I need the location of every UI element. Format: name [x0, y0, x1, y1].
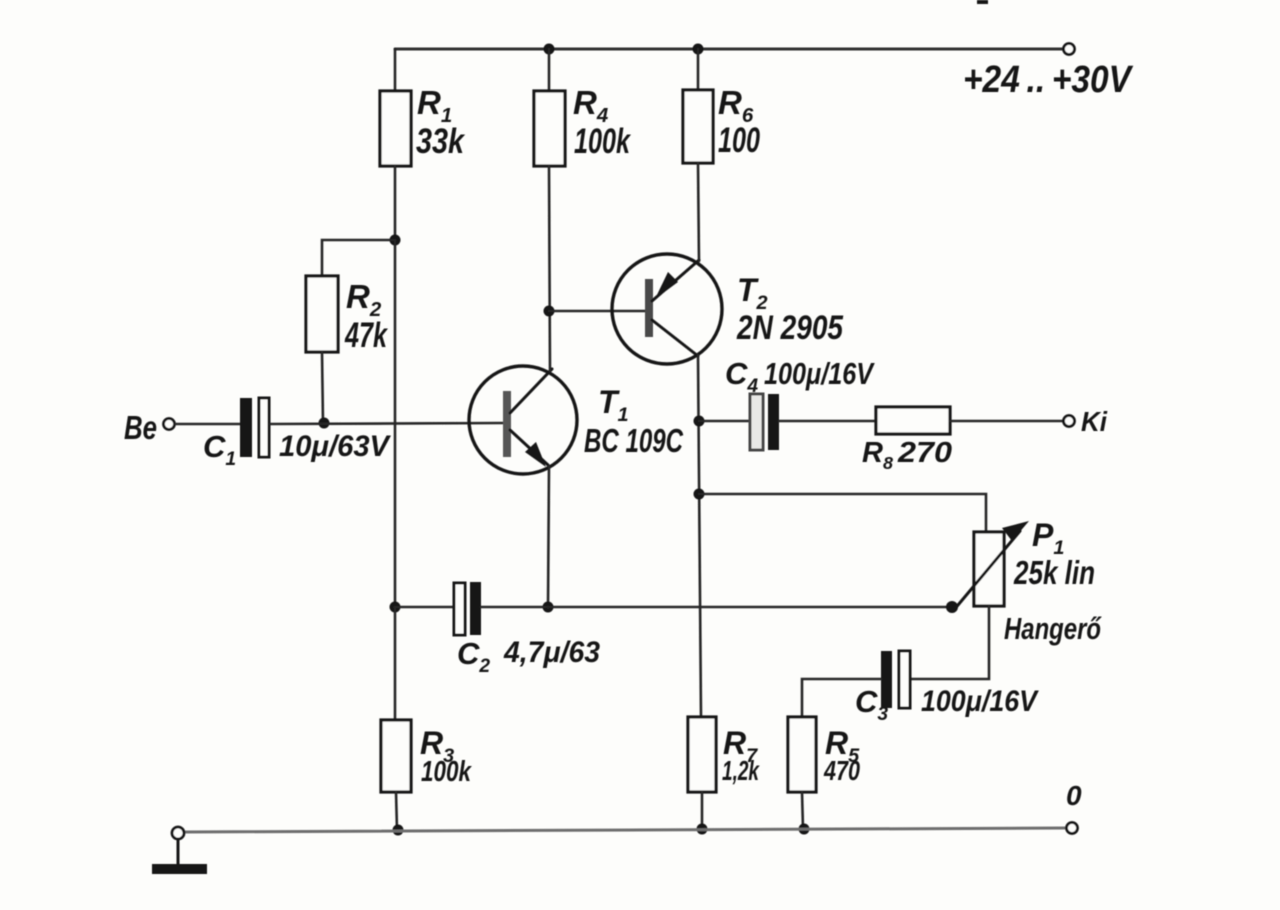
terminal 0	[1067, 823, 1078, 834]
wire rail to R4	[548, 49, 551, 91]
svg-text:0: 0	[1066, 780, 1082, 811]
svg-text:T1: T1	[598, 384, 629, 426]
svg-text:470: 470	[823, 755, 860, 786]
svg-text:R8: R8	[862, 437, 893, 473]
transistor T2	[612, 254, 722, 364]
capacitor C3	[881, 651, 910, 708]
resistor R4	[534, 91, 565, 166]
capacitor C2	[454, 582, 481, 635]
resistor R2	[306, 276, 338, 352]
svg-text:R1: R1	[417, 84, 452, 127]
svg-text:100k: 100k	[421, 756, 472, 788]
wire C4 to R8	[779, 420, 876, 423]
wire to T2 base	[549, 310, 647, 313]
svg-text:+24 .. +30V: +24 .. +30V	[963, 59, 1133, 101]
wire rail to R1	[394, 49, 397, 91]
resistor R3	[381, 720, 411, 792]
wire R7 to rail	[701, 792, 704, 829]
node B (C2/R3 junction)	[390, 602, 401, 613]
svg-text:P1: P1	[1032, 517, 1064, 559]
node C4 junction	[694, 416, 705, 427]
wire R4 to T1 collector	[549, 166, 550, 371]
wire R2 bottom to base node	[322, 352, 323, 423]
wire R8 to Ki	[950, 420, 1062, 423]
node base junction	[319, 418, 330, 429]
potentiometer P1	[953, 521, 1029, 611]
wire Be to C1	[175, 423, 240, 426]
svg-text:25k lin: 25k lin	[1013, 554, 1095, 591]
wire R1 bottom to node A	[394, 166, 397, 240]
resistor R1	[380, 91, 411, 166]
svg-text:Ki: Ki	[1081, 406, 1108, 437]
svg-text:C1: C1	[203, 429, 236, 470]
svg-text:270: 270	[897, 437, 952, 469]
resistor R6	[683, 90, 713, 163]
wire top supply rail	[395, 48, 1063, 51]
svg-text:100μ/16V: 100μ/16V	[921, 685, 1040, 718]
wire T1 emitter down	[548, 466, 549, 607]
svg-text:33k: 33k	[416, 122, 465, 161]
wire node A to R2 top	[322, 240, 395, 276]
wire C2 to emitter node	[481, 606, 548, 609]
svg-text:4,7μ/63: 4,7μ/63	[503, 636, 600, 669]
svg-text:47k: 47k	[344, 316, 388, 355]
svg-text:100k: 100k	[574, 122, 631, 161]
svg-text:BC 109C: BC 109C	[584, 422, 684, 459]
wire bottom ground rail	[185, 828, 1066, 832]
wire emitter node to wiper	[548, 606, 952, 609]
svg-text:1,2k: 1,2k	[722, 755, 760, 786]
svg-text:R4: R4	[573, 84, 609, 127]
node T2 base junction	[544, 306, 555, 317]
wire C1 to T1 base	[270, 423, 505, 424]
svg-text:10μ/63V: 10μ/63V	[279, 430, 392, 463]
wire feedback node to P1 top	[699, 494, 986, 532]
node A (R1/R2 junction)	[390, 235, 401, 246]
svg-text:T2: T2	[737, 272, 768, 314]
svg-text:C4: C4	[725, 356, 758, 397]
node feedback junction	[694, 489, 705, 500]
terminal Be input	[164, 419, 175, 430]
node wiper junction	[946, 601, 958, 613]
scan blob top	[977, 0, 988, 4]
terminal +V	[1064, 44, 1075, 55]
svg-text:2N 2905: 2N 2905	[736, 309, 844, 347]
wire node A down to node B (crosses input wire)	[394, 240, 397, 607]
resistor R7	[688, 717, 716, 792]
svg-text:100: 100	[718, 121, 760, 160]
svg-text:Hangerő: Hangerő	[1004, 611, 1102, 646]
node R3-rail junction	[393, 825, 404, 836]
resistor R5	[788, 717, 816, 792]
capacitor C1	[240, 398, 269, 457]
svg-text:R2: R2	[346, 278, 382, 321]
wire collector node to C4	[699, 420, 750, 423]
node supply junction R6	[693, 44, 704, 55]
wire node B to R3	[394, 607, 397, 720]
node supply junction R4	[544, 44, 555, 55]
transistor T1	[469, 366, 577, 474]
wire rail to R6	[697, 49, 700, 90]
wire R3 to ground rail	[396, 792, 397, 830]
terminal Ki	[1064, 416, 1075, 427]
ground terminal circle	[172, 827, 184, 839]
wire T2 collector down to R7	[698, 355, 701, 717]
capacitor C4	[750, 394, 779, 450]
wire C3 to R5	[802, 679, 881, 717]
wire node B to C2	[395, 606, 454, 609]
node R5-rail junction	[799, 824, 810, 835]
wire P1 bottom to C3	[910, 606, 989, 679]
wire R6 to T2 emitter	[698, 163, 699, 261]
svg-text:C2: C2	[457, 636, 490, 677]
svg-text:Be: Be	[124, 409, 157, 446]
node C2 right junction	[543, 602, 554, 613]
node R7-rail junction	[697, 824, 708, 835]
wire R5 to rail	[802, 792, 803, 829]
svg-text:100μ/16V: 100μ/16V	[764, 356, 875, 391]
resistor R8	[876, 407, 950, 434]
ground symbol	[152, 839, 207, 874]
